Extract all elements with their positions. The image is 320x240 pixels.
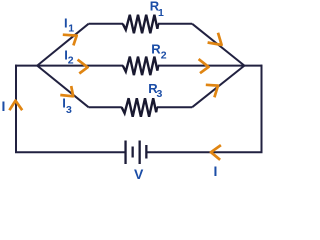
svg-text:3: 3 [66, 104, 72, 116]
svg-text:1: 1 [158, 7, 164, 19]
svg-text:3: 3 [157, 88, 163, 100]
svg-text:V: V [134, 166, 144, 180]
svg-text:1: 1 [68, 23, 74, 35]
svg-text:I: I [64, 16, 68, 31]
svg-text:I: I [214, 163, 218, 179]
svg-text:I: I [2, 98, 6, 114]
svg-text:2: 2 [68, 55, 74, 67]
svg-text:2: 2 [161, 50, 167, 62]
